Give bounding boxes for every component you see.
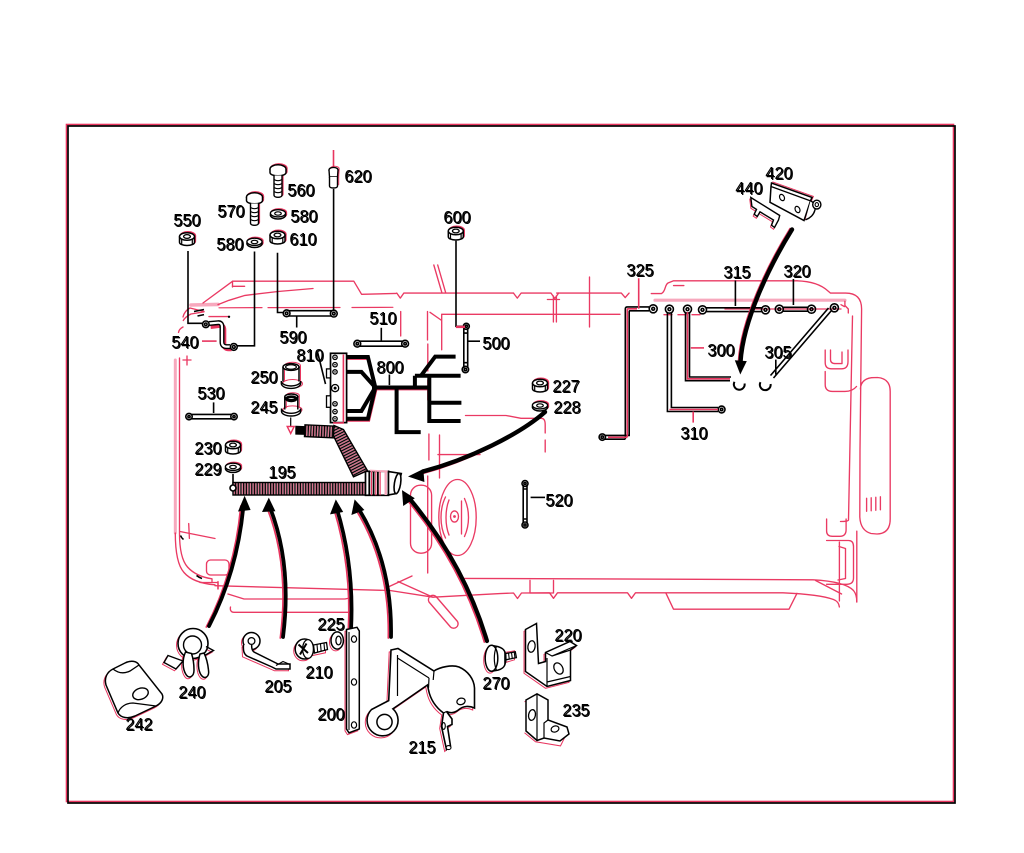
svg-text:229: 229 <box>194 459 221 479</box>
svg-text:560: 560 <box>287 180 314 200</box>
svg-text:810: 810 <box>296 345 323 365</box>
svg-text:235: 235 <box>562 700 589 720</box>
svg-text:227: 227 <box>552 376 579 396</box>
svg-text:305: 305 <box>764 342 791 362</box>
svg-text:245: 245 <box>250 397 277 417</box>
svg-text:240: 240 <box>178 682 205 702</box>
svg-text:500: 500 <box>482 333 509 353</box>
svg-text:580: 580 <box>290 206 317 226</box>
svg-text:420: 420 <box>765 163 792 183</box>
svg-text:225: 225 <box>317 614 344 634</box>
svg-text:610: 610 <box>289 229 316 249</box>
svg-text:310: 310 <box>680 423 707 443</box>
svg-text:530: 530 <box>197 383 224 403</box>
svg-text:580: 580 <box>216 234 243 254</box>
svg-text:242: 242 <box>125 714 152 734</box>
svg-text:215: 215 <box>408 737 435 757</box>
svg-text:600: 600 <box>443 207 470 227</box>
svg-text:620: 620 <box>344 166 371 186</box>
svg-text:325: 325 <box>626 260 653 280</box>
svg-text:200: 200 <box>317 704 344 724</box>
svg-text:800: 800 <box>376 357 403 377</box>
svg-text:315: 315 <box>723 262 750 282</box>
svg-text:550: 550 <box>173 210 200 230</box>
svg-text:590: 590 <box>279 327 306 347</box>
svg-text:195: 195 <box>268 462 295 482</box>
svg-text:510: 510 <box>369 308 396 328</box>
svg-text:440: 440 <box>735 178 762 198</box>
svg-text:230: 230 <box>194 438 221 458</box>
svg-text:520: 520 <box>545 490 572 510</box>
svg-text:220: 220 <box>554 625 581 645</box>
svg-text:320: 320 <box>783 261 810 281</box>
svg-text:570: 570 <box>217 201 244 221</box>
svg-text:250: 250 <box>250 367 277 387</box>
svg-text:270: 270 <box>482 673 509 693</box>
svg-text:300: 300 <box>707 340 734 360</box>
svg-text:210: 210 <box>305 662 332 682</box>
svg-text:540: 540 <box>171 332 198 352</box>
svg-text:205: 205 <box>264 676 291 696</box>
svg-text:228: 228 <box>553 397 580 417</box>
